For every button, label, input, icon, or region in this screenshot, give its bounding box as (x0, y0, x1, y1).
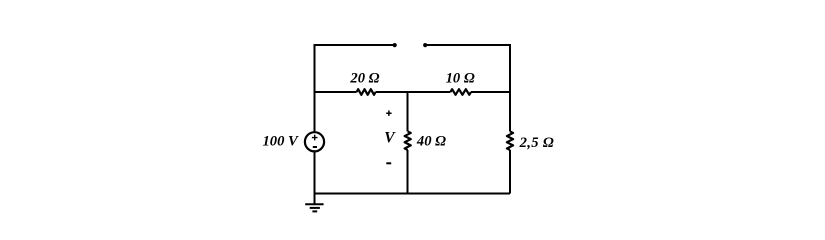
svg-text:40 Ω: 40 Ω (416, 134, 446, 150)
wire middle horizontal left (315, 91, 357, 93)
svg-text:2,5 Ω: 2,5 Ω (519, 135, 555, 151)
voltage source V1 circle (305, 132, 324, 151)
wire top-right segment from switch (425, 45, 510, 131)
svg-text:V: V (384, 129, 396, 146)
resistor R1 20 ohm (357, 89, 376, 95)
resistor R4 2,5 ohm (507, 131, 513, 150)
wire ground stub (314, 194, 316, 205)
resistor R3 40 ohm (405, 131, 411, 150)
label minus (386, 162, 391, 164)
voltage source minus sign (313, 146, 317, 148)
wire right vertical lower (509, 150, 511, 194)
svg-text:20 Ω: 20 Ω (349, 70, 379, 86)
wire middle horizontal right (471, 91, 510, 93)
ground (305, 204, 323, 211)
svg-text:10 Ω: 10 Ω (446, 70, 475, 86)
voltage source plus sign (312, 135, 318, 141)
label plus (386, 111, 391, 116)
wire left vertical lower (314, 152, 316, 194)
switch contact dot left (393, 43, 397, 47)
wire bottom (315, 193, 511, 195)
wire middle vertical upper (407, 92, 409, 131)
resistor R2 10 ohm (450, 89, 471, 95)
wire middle horizontal center (376, 91, 451, 93)
switch contact dot right (423, 43, 427, 47)
wire middle vertical lower (407, 150, 409, 194)
wire top-left segment to switch (315, 44, 395, 45)
wire left vertical upper (314, 45, 316, 132)
svg-text:100 V: 100 V (263, 134, 300, 150)
